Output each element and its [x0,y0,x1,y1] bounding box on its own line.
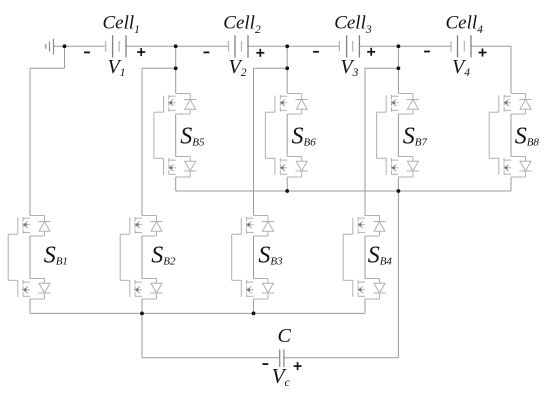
node dot bottom bus [252,312,256,316]
switch S_B2: gate link wire [119,234,121,280]
switch S_B1: upper MOSFET with body diode [8,216,51,237]
wire: node 2 down to S_B6 [286,46,288,93]
switch S_B4: upper MOSFET with body diode [343,216,386,237]
battery Cell2 [229,35,249,57]
wire: S_B6 down to middle bus [286,177,288,191]
switch S_B5: source-source interconnect wire [175,114,177,157]
switch S_B5: lower MOSFET with body diode [154,157,197,178]
node dot bottom bus [140,312,144,316]
wire: S_B4 down to bottom bus [364,299,366,313]
switch S_B8: lower MOSFET with body diode [489,157,532,178]
wire: node 1 down to S_B5 [175,46,177,93]
switch S_B6: lower MOSFET with body diode [265,157,308,178]
wire: middle bus (S_B5..S_B8 common) [176,190,511,192]
wire: S_B2 down to bottom bus [141,299,143,313]
node dot on battery string 2 [285,44,289,48]
wire: branch to S_B2 [142,68,176,215]
switch S_B7: gate link wire [376,112,378,158]
switch S_B4: lower MOSFET with body diode [343,279,386,300]
switch S_B5: upper MOSFET with body diode [154,94,197,115]
switch S_B8: source-source interconnect wire [510,114,512,157]
polarity plus Cell2 [256,49,264,57]
switch S_B1: source-source interconnect wire [29,236,31,279]
wire: Cell3 positive to Cell4 negative [359,45,451,47]
polarity plus Cell4 [479,49,487,57]
battery Cell4 [451,35,471,57]
polarity plus Cell3 [367,48,375,56]
switch S_B1: lower MOSFET with body diode [8,279,51,300]
polarity minus C [263,363,269,365]
node dot branch [285,66,289,70]
wire: Cell1 positive to Cell2 negative [126,45,229,47]
ground [46,39,54,55]
switch S_B4: source-source interconnect wire [364,236,366,279]
wire: branch to S_B1 [30,68,65,215]
node dot middle bus [285,189,289,193]
node dot middle bus [397,189,401,193]
switch S_B2: upper MOSFET with body diode [120,216,163,237]
wire: S_B7 down to middle bus [397,177,399,191]
wire: S_B1 down to bottom bus [29,299,31,313]
wire: ground to Cell1 negative [54,45,106,47]
wire: S_B5 down to middle bus [175,177,177,191]
switch S_B2: source-source interconnect wire [141,236,143,279]
switch S_B3: source-source interconnect wire [253,236,255,279]
svg-text:C: C [278,325,292,347]
polarity plus C [294,362,302,370]
node dot on battery string 0 [63,44,67,48]
battery Cell3 [339,35,359,57]
switch S_B3: gate link wire [231,234,233,280]
node dot on battery string 3 [397,44,401,48]
wire: right end down to S_B8 [510,46,512,93]
polarity minus Cell4 [424,51,430,53]
battery Cell1 [106,35,126,57]
switch S_B8: gate link wire [488,112,490,158]
wire: capacitor positive to middle bus [284,191,399,358]
switch S_B1: gate link wire [7,234,9,280]
switch S_B7: source-source interconnect wire [397,114,399,157]
switch S_B8: upper MOSFET with body diode [489,94,532,115]
switch S_B6: gate link wire [264,112,266,158]
switch S_B4: gate link wire [342,234,344,280]
polarity minus Cell3 [313,51,319,53]
polarity minus Cell2 [204,51,210,53]
wire: bottom bus (S_B1..S_B4 common) [30,312,365,314]
switch S_B7: lower MOSFET with body diode [377,157,420,178]
switch S_B3: upper MOSFET with body diode [232,216,275,237]
polarity minus Cell1 [84,51,90,53]
wire: branch to S_B4 [365,68,398,215]
switch S_B6: source-source interconnect wire [286,114,288,157]
switch S_B3: lower MOSFET with body diode [232,279,275,300]
capacitor C [280,350,284,368]
wire: branch to S_B3 [254,68,288,215]
wire: S_B8 down to middle bus [510,177,512,191]
node dot branch [174,66,178,70]
wire: ground node down [64,46,66,68]
switch S_B7: upper MOSFET with body diode [377,94,420,115]
wire: node 3 down to S_B7 [397,46,399,93]
switch S_B2: lower MOSFET with body diode [120,279,163,300]
wire: bottom bus to capacitor negative [142,313,280,357]
wire: Cell2 positive to Cell3 negative [248,45,339,47]
node dot branch [397,66,401,70]
polarity plus Cell1 [137,48,145,56]
switch S_B6: upper MOSFET with body diode [265,94,308,115]
node dot on battery string 1 [174,44,178,48]
wire: S_B3 down to bottom bus [253,299,255,313]
wire: Cell4 positive to right corner [471,45,511,47]
switch S_B5: gate link wire [153,112,155,158]
